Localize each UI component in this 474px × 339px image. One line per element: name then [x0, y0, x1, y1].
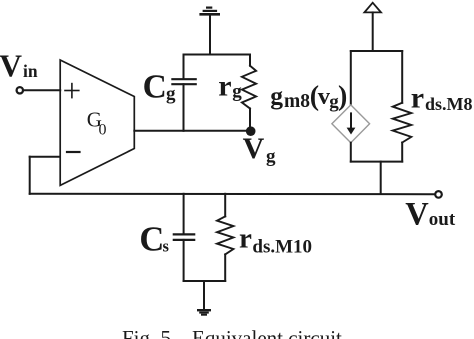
svg-text:C: C: [139, 221, 164, 259]
svg-text:0: 0: [99, 122, 107, 139]
capacitor Cs: [173, 233, 196, 235]
wire diamond top: [350, 51, 352, 105]
wire Cs branch upper: [183, 194, 185, 235]
resistor rg: [242, 55, 256, 131]
wire ground stub top: [209, 15, 211, 55]
wire ground stub bottom: [203, 281, 205, 309]
svg-text:V: V: [243, 132, 265, 165]
svg-text:r: r: [239, 223, 252, 255]
svg-text:s: s: [163, 237, 170, 256]
op-amp G0 body: [60, 60, 134, 185]
wire bottom rail Cs/rds.M10: [184, 280, 226, 282]
label G0: [87, 108, 107, 139]
svg-text:ds.M8: ds.M8: [425, 94, 473, 114]
op-amp + symbol: [65, 84, 79, 98]
svg-text:r: r: [218, 70, 231, 103]
svg-text:g: g: [232, 81, 242, 102]
svg-text:g: g: [270, 81, 283, 110]
output terminal Vout: [435, 191, 442, 198]
wire op-amp output to node Vg: [134, 130, 250, 132]
svg-text:V: V: [405, 197, 429, 233]
label Vout: [405, 197, 456, 233]
label Vg: [243, 132, 276, 167]
supply symbol (arrow up): [364, 3, 381, 51]
svg-text:m8: m8: [284, 91, 310, 112]
wire feedback vertical: [29, 157, 31, 194]
wire Vin to op-amp + input: [23, 89, 60, 91]
dependent source gm8(vg) diamond: [332, 105, 370, 143]
label rg: [218, 70, 242, 103]
input terminal Vin: [17, 87, 23, 93]
wire top rail of right pair: [351, 50, 402, 52]
resistor rds.M8: [393, 51, 412, 162]
svg-text:g: g: [166, 83, 176, 104]
wire bottom rail of right pair: [351, 161, 402, 163]
op-amp - symbol: [66, 151, 81, 153]
svg-text:Fig. 5. Equivalent circuit: Fig. 5. Equivalent circuit: [122, 326, 342, 339]
ground (bottom): [197, 310, 211, 315]
svg-text:g: g: [266, 146, 276, 167]
ground (top, inverted): [199, 8, 220, 15]
wire feedback bottom bus: [30, 193, 434, 195]
dependent source arrow: [347, 113, 356, 134]
wire stub to bus: [380, 162, 382, 194]
svg-text:V: V: [0, 49, 22, 84]
svg-text:in: in: [23, 61, 38, 81]
svg-text:r: r: [411, 82, 424, 115]
label Cs: [139, 221, 169, 259]
label rds.M10: [239, 223, 312, 258]
wire Cs branch lower: [183, 240, 185, 281]
svg-text:ds.M10: ds.M10: [252, 236, 312, 257]
node Vg junction dot: [246, 126, 256, 136]
wire top rail Cg to rg: [184, 54, 251, 56]
capacitor Cg: [171, 78, 197, 80]
label Cg: [143, 68, 176, 105]
label rds.M8: [411, 82, 473, 115]
wire diamond bottom: [350, 143, 352, 162]
wire feedback to op-amp - input: [30, 156, 60, 158]
wire Cg branch lower: [183, 84, 185, 131]
resistor rds.M10: [217, 194, 233, 281]
label gm8(vg): [270, 81, 347, 112]
svg-text:out: out: [429, 209, 456, 230]
svg-text:C: C: [143, 68, 167, 105]
svg-text:): ): [338, 81, 347, 112]
wire Cg branch upper: [183, 55, 185, 80]
label Vin: [0, 49, 38, 84]
